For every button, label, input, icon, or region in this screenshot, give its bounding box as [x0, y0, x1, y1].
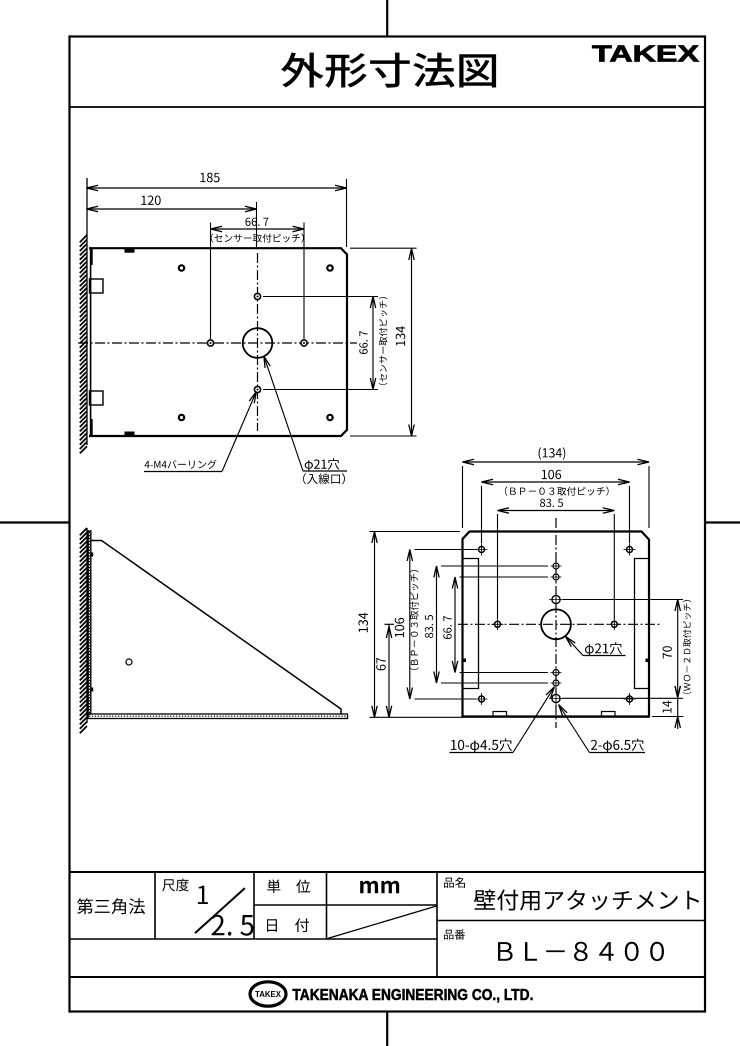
dim text 185 [200, 173, 219, 183]
text 日付 [267, 918, 309, 932]
phi4.5 hole center column upper-1 (front view) [553, 563, 559, 569]
dimension 66.7 horizontal (top view) [211, 228, 305, 230]
label wire entry [303, 473, 345, 484]
extension line for 120 [256, 202, 258, 247]
front bottom edge emphasis [463, 716, 650, 718]
label BP-03 pitch horizontal [505, 486, 609, 495]
left tab upper (top view) [90, 279, 104, 293]
dim text 120 [141, 196, 160, 206]
bottom tab left (front view) [493, 712, 507, 717]
ext bottom for 66.7 left [460, 672, 549, 674]
phi4.5 hole top-right (front view) [627, 547, 633, 553]
ext bottom for 134/67 [370, 716, 463, 718]
dim text 70 [663, 646, 672, 658]
dimension 70 (front view right) [677, 600, 679, 698]
vertical plate dotted section fill [89, 532, 91, 713]
vertical: daisankakuho right [154, 872, 156, 939]
bracket vertical plate (side view) [88, 531, 91, 714]
horizontal centerline (top view) [78, 342, 357, 344]
left centering mark [0, 521, 70, 523]
extension line left for 66.7 [210, 223, 212, 340]
M4 burring hole top (top view) [254, 293, 260, 299]
tick at top of 67 [385, 623, 395, 625]
phi4.5 hole mid-right (front view) [611, 621, 617, 627]
dim text 66.7 vertical [359, 331, 367, 354]
leader phi21 hole (front view) [583, 655, 626, 657]
phi4.5 hole top-right (top view) [327, 265, 332, 270]
dimension 134 right (top view) [411, 249, 413, 437]
svg-text:TAKENAKA ENGINEERING CO., LTD.: TAKENAKA ENGINEERING CO., LTD. [292, 987, 533, 1004]
dimension 14 (front view right) [677, 698, 679, 730]
text 品番 [444, 930, 465, 940]
plate outline (top view) [89, 248, 347, 436]
text 単位 [267, 879, 310, 893]
dim text 106 left [395, 618, 405, 637]
wall face line (top view) [86, 178, 88, 445]
dim text 106 top [542, 470, 561, 480]
TAKEX oval logo [250, 982, 286, 1006]
dimension 83.5 (front view top) [498, 510, 615, 512]
tab mark upper (side view) [91, 553, 93, 557]
ext top for 66.7 left [460, 576, 549, 578]
title block top line [70, 871, 706, 873]
ext bottom for 106 left [415, 698, 477, 700]
vertical: tani right [326, 872, 328, 939]
product name 壁付用アタッチメント [474, 890, 699, 911]
bottom edge tab (top view) [125, 432, 135, 437]
text mm [360, 881, 399, 894]
phi4.5 hole mid-left (front view) [495, 621, 501, 627]
ext top for 106 left [415, 549, 478, 551]
title block row line left [70, 938, 438, 940]
dimension 66.7 (front view left) [454, 577, 456, 673]
dimension (134) (front view top) [463, 461, 650, 463]
ext right for 106 top [629, 486, 631, 543]
wall hatching (top view) [80, 235, 87, 453]
scale denominator 2.5 [212, 915, 254, 936]
top centering mark [386, 0, 388, 37]
vertical: hinmei left [436, 872, 438, 977]
dim text 66.7 left [443, 616, 451, 639]
text 第三角法 [77, 898, 145, 914]
vertical centerline (front view) [555, 518, 557, 728]
leader 4-M4 burring [144, 471, 222, 473]
dim text 67 [376, 658, 386, 671]
left slot (front view) [463, 559, 479, 689]
title 外形寸法図 [281, 52, 496, 87]
tab mark lower (side view) [91, 688, 93, 692]
phi4.5 hole top-left (front view) [479, 547, 485, 553]
dimension 67 (front view left) [388, 624, 390, 717]
right centering mark [705, 521, 740, 523]
ext top for 83.5 left [441, 565, 548, 567]
horizontal centerline (front view) [458, 623, 662, 625]
leader 2-phi6.5 holes [590, 752, 646, 754]
dim text 14 [663, 701, 672, 713]
ext left for 83.5 top [497, 514, 499, 619]
ext right for 83.5 top [613, 514, 615, 619]
ext from phi6.5 upper hole [563, 599, 683, 601]
front plate outline [463, 532, 650, 717]
top edge tab (top view) [125, 248, 135, 253]
dimension 106 (front view top) [482, 481, 630, 483]
ext top for 134 left [370, 531, 461, 533]
phi4.5 hole bottom-right (front view) [627, 696, 633, 702]
wall face line (side view) [86, 528, 88, 723]
extension line from top M4 hole [263, 296, 378, 298]
scale numerator 1 [198, 886, 208, 904]
phi6.5 hole upper (front view) [552, 595, 560, 603]
dimension 66.7 vertical (top view) [372, 297, 374, 390]
text 品名 [444, 877, 465, 888]
ext bottom edge right [652, 716, 684, 718]
phi4.5 hole center column upper-2 (front view) [553, 574, 559, 580]
vertical centerline (top view) [257, 253, 259, 431]
hole in gusset (side view) [126, 659, 132, 665]
phi21 hole (front view) [541, 609, 571, 639]
dim text (134) [539, 447, 566, 460]
label BP-03 pitch vertical [410, 570, 419, 670]
dimension 134 (front view left) [374, 532, 376, 718]
dimension 185 (top view) [87, 187, 347, 189]
label 4-M4 burring [145, 460, 217, 469]
ext from phi6.5 lower hole [562, 697, 683, 699]
date cell diagonal [328, 906, 437, 939]
dim text 83.5 left [425, 615, 433, 638]
dim text 83.5 top [540, 499, 563, 507]
dim text 66.7 [246, 218, 269, 226]
phi4.5 hole top-left (top view) [179, 265, 184, 270]
phi4.5 hole center column lower-2 (front view) [553, 680, 559, 686]
extension line top for 134 [350, 247, 417, 249]
bottom plate strip (side view) [88, 714, 347, 719]
label sensor pitch horizontal [211, 233, 304, 242]
label 10-phi4.5 holes [451, 739, 512, 753]
bottom strip dotted section fill [89, 715, 347, 717]
M4 burring hole bottom (top view) [254, 386, 260, 392]
unit/date divider [254, 904, 437, 906]
product number BL-8400 [498, 942, 664, 961]
bottom centering mark [386, 1012, 388, 1046]
label sensor pitch vertical [379, 297, 388, 385]
label phi21 hole (top view) [305, 458, 340, 471]
phi21 wire entry circle (top view) [243, 328, 273, 358]
extension line from bottom M4 hole [263, 389, 378, 391]
svg-text:TAKEX: TAKEX [255, 990, 282, 999]
logo band top line [70, 976, 706, 978]
vertical: shakudo right [253, 872, 255, 939]
phi4.5 hole bottom-right (top view) [327, 415, 332, 420]
bottom tab right (front view) [602, 712, 616, 717]
gusset outline (side view) [91, 541, 341, 715]
extension line right for 185 [346, 179, 348, 247]
dimension 120 (top view) [87, 208, 257, 210]
label WO-2D pitch vertical [683, 600, 692, 694]
phi6.5 hole lower (front view) [552, 694, 560, 702]
leader phi21 hole (top view) [303, 470, 347, 472]
scale fraction slash [195, 888, 245, 933]
dimension 83.5 (front view left) [436, 566, 438, 683]
right slot (front view) [635, 559, 650, 689]
ext right for (134) [648, 466, 650, 528]
extension line right for 66.7 [303, 223, 305, 340]
M4 burring hole right (top view) [301, 340, 307, 346]
svg-text:TAKEX: TAKEX [592, 41, 699, 67]
dim text 134 left [358, 613, 368, 633]
left tab lower (top view) [90, 391, 104, 405]
left edge tick (front view) [463, 659, 467, 663]
phi4.5 hole bottom-left (front view) [479, 696, 485, 702]
label phi21 hole (front view) [585, 642, 622, 656]
ext bottom for 83.5 left [441, 682, 548, 684]
left edge flange marks (top view) [91, 249, 93, 265]
right edge tick (front view) [646, 659, 650, 663]
text 尺度 [162, 879, 189, 892]
hinmei/hinban divider [437, 920, 705, 922]
M4 burring hole left (top view) [207, 340, 213, 346]
wall hatching (side view) [80, 528, 87, 733]
header separator line [70, 106, 706, 108]
leader 10-phi4.5 holes [450, 752, 514, 754]
phi4.5 hole bottom-left (top view) [179, 415, 184, 420]
ext left for 106 top [481, 486, 483, 543]
phi4.5 hole center column lower-1 (front view) [553, 670, 559, 676]
label 2-phi6.5 holes [591, 739, 644, 753]
extension line bottom for 134 [350, 435, 417, 437]
dim text 134 (top view) [396, 326, 406, 346]
ext left for (134) [462, 466, 464, 528]
dimension 106 (front view left) [409, 550, 411, 700]
